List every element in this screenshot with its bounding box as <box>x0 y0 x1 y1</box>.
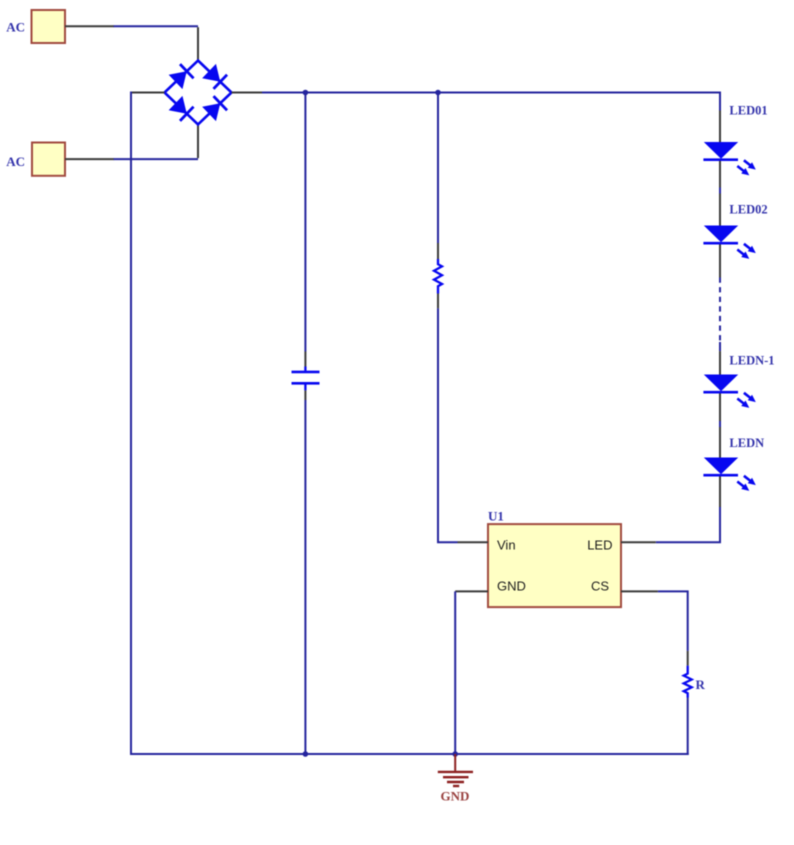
wire U1 GND to ground rail <box>454 591 456 754</box>
svg-text:LED02: LED02 <box>729 203 767 217</box>
LED LED02 <box>703 226 755 259</box>
ground symbol <box>438 754 473 786</box>
label AC1 <box>6 20 25 35</box>
bridge diode D4 (bottom-right) <box>202 96 227 121</box>
label GND net <box>441 788 470 803</box>
label AC2 <box>6 154 25 169</box>
op-amp U1 body <box>488 524 621 607</box>
junction ground rail at GND <box>452 751 458 757</box>
LED LEDN <box>703 458 755 491</box>
svg-text:GND: GND <box>497 578 526 593</box>
wire above LEDN-1 <box>719 351 721 374</box>
svg-text:LEDN: LEDN <box>729 436 764 450</box>
svg-text:LED: LED <box>587 538 612 553</box>
wire AC2 to bridge <box>114 158 198 160</box>
wire LEDN to U1 LED pin <box>656 507 720 542</box>
resistor R pin top <box>687 651 689 666</box>
label LEDN <box>729 436 764 450</box>
port AC2 <box>32 143 65 176</box>
LED LED01 <box>703 142 755 175</box>
junction top rail at resistor <box>435 90 441 96</box>
port AC1 <box>32 10 66 43</box>
bridge diode D3 (left-bottom) <box>169 96 194 121</box>
svg-text:CS: CS <box>591 578 609 593</box>
bridge diode D2 (top-right) <box>202 64 227 89</box>
U1 pin Vin <box>458 541 489 543</box>
bridge pin top <box>197 27 199 60</box>
svg-text:GND: GND <box>441 788 470 803</box>
label LEDN-1 <box>729 354 774 368</box>
wire resistor R1 to Vin <box>438 308 458 542</box>
wire DC plus top rail <box>262 93 720 111</box>
U1 pin CS <box>621 590 658 592</box>
U1 pin GND <box>455 590 488 592</box>
U1 pin label Vin <box>497 538 516 553</box>
svg-text:R: R <box>696 677 706 692</box>
bridge diode D1 (left-top) <box>169 64 194 89</box>
capacitor C1 <box>292 367 320 391</box>
svg-text:LED01: LED01 <box>729 104 767 118</box>
pin AC2 <box>65 158 114 160</box>
U1 pin LED <box>621 541 656 543</box>
bridge pin bottom <box>197 125 199 159</box>
wire segment above LED01 <box>719 111 721 143</box>
bridge pin right <box>232 92 263 94</box>
capacitor C1 pin top <box>304 352 306 367</box>
wire top rail to resistor R1 <box>437 93 439 244</box>
wire capacitor to ground rail <box>304 400 306 754</box>
svg-text:U1: U1 <box>488 508 504 523</box>
resistor R body <box>684 666 692 698</box>
svg-text:LEDN-1: LEDN-1 <box>729 354 774 368</box>
label LED02 <box>729 203 767 217</box>
label LED01 <box>729 104 767 118</box>
bridge pin left <box>131 92 165 94</box>
capacitor C1 pin bottom <box>304 390 306 400</box>
wire LEDN-1 to LEDN <box>719 393 721 457</box>
wire ground rail <box>131 753 689 755</box>
label R <box>696 677 706 692</box>
wire AC1 to bridge <box>114 25 198 27</box>
junction ground rail at capacitor <box>303 751 309 757</box>
U1 pin label CS <box>591 578 609 593</box>
LED LEDN-1 <box>703 375 755 408</box>
wire DC minus left rail down <box>130 92 132 756</box>
resistor R1 body <box>434 259 442 294</box>
U1 pin label LED <box>587 538 612 553</box>
wire dashed LED ellipsis <box>719 278 721 352</box>
resistor R1 pin top <box>437 243 439 259</box>
wire resistor R to ground rail <box>687 698 689 756</box>
resistor R1 pin bottom <box>437 294 439 309</box>
svg-text:AC: AC <box>6 154 25 169</box>
wire top rail to capacitor <box>304 93 306 352</box>
wire U1 CS to resistor R <box>658 591 688 651</box>
pin AC1 <box>65 25 114 27</box>
wire below LEDN <box>719 476 721 507</box>
junction top rail at capacitor <box>303 90 309 96</box>
U1 pin label GND <box>497 578 526 593</box>
wire LED01 to LED02 <box>719 161 721 226</box>
svg-text:Vin: Vin <box>497 538 516 553</box>
svg-text:AC: AC <box>6 20 25 35</box>
bridge rectifier BR1 body <box>165 61 232 125</box>
wire below LED02 <box>719 244 721 277</box>
label U1 <box>488 508 504 523</box>
